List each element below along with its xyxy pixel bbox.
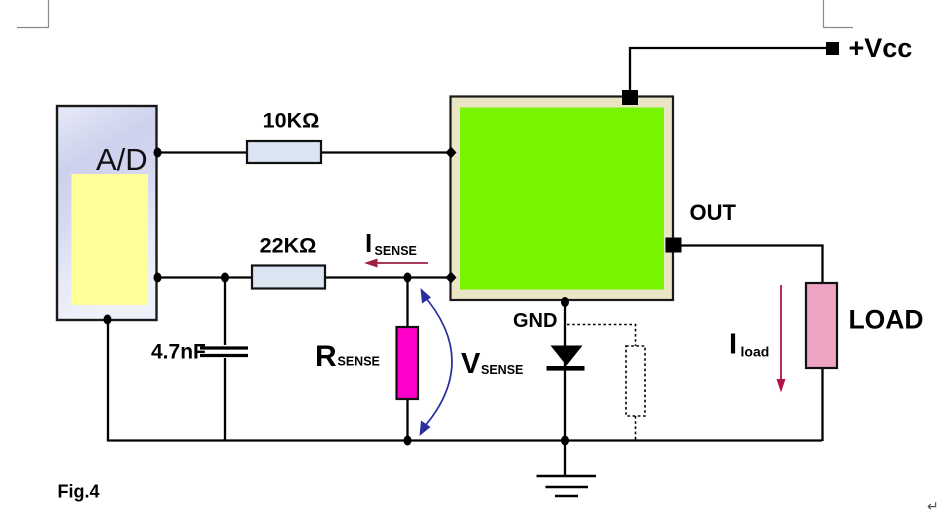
svg-text:SENSE: SENSE [375, 244, 417, 258]
svg-text:SENSE: SENSE [481, 363, 523, 377]
svg-text:I: I [365, 228, 372, 258]
svg-text:4.7nF: 4.7nF [151, 341, 206, 364]
svg-text:↵: ↵ [927, 498, 939, 514]
svg-text:V: V [461, 348, 481, 380]
svg-text:LOAD: LOAD [849, 305, 924, 335]
svg-text:GND: GND [513, 310, 557, 332]
svg-text:+Vcc: +Vcc [849, 33, 913, 63]
svg-text:load: load [741, 344, 770, 360]
svg-text:I: I [729, 329, 737, 361]
svg-text:OUT: OUT [690, 200, 737, 225]
svg-text:R: R [315, 340, 337, 373]
svg-text:SENSE: SENSE [338, 355, 380, 369]
svg-text:22KΩ: 22KΩ [260, 234, 317, 258]
svg-text:A/D: A/D [96, 142, 148, 177]
svg-text:Fig.4: Fig.4 [58, 482, 100, 502]
svg-text:10KΩ: 10KΩ [263, 109, 320, 133]
